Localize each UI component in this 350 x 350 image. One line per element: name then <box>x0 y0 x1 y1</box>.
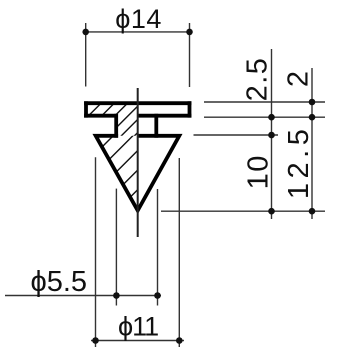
right side: outer vertical dimension line (2 / 12.5) <box>309 68 316 219</box>
dimension phi14: dimension line with dots <box>82 29 192 36</box>
svg-text:2: 2 <box>283 71 315 87</box>
right side: horizontal extension lines <box>161 102 325 211</box>
part outline: cone <box>96 136 180 211</box>
dimension phi5.5: extension lines <box>116 189 157 306</box>
svg-text:2.5: 2.5 <box>242 57 274 102</box>
centerline <box>137 88 139 237</box>
svg-text:ϕ11: ϕ11 <box>118 312 158 342</box>
svg-text:10: 10 <box>243 154 275 189</box>
dimension phi5.5: dimension line with dots <box>5 292 161 299</box>
dimension phi11: extension lines <box>96 157 180 347</box>
svg-text:ϕ5.5: ϕ5.5 <box>31 266 88 298</box>
right side: inner vertical dimension line (2.5 / 10) <box>268 49 275 219</box>
svg-text:ϕ14: ϕ14 <box>115 4 162 34</box>
dimension phi14: extension lines <box>86 23 190 87</box>
hatch (section lines, cap and neck) <box>64 100 170 140</box>
svg-text:12.5: 12.5 <box>283 125 315 199</box>
part outline: neck <box>116 114 156 138</box>
dimension phi11: dimension line with dots <box>91 337 184 344</box>
hatch (section lines, cone) <box>34 130 197 215</box>
part outline: flange cap <box>84 101 191 117</box>
